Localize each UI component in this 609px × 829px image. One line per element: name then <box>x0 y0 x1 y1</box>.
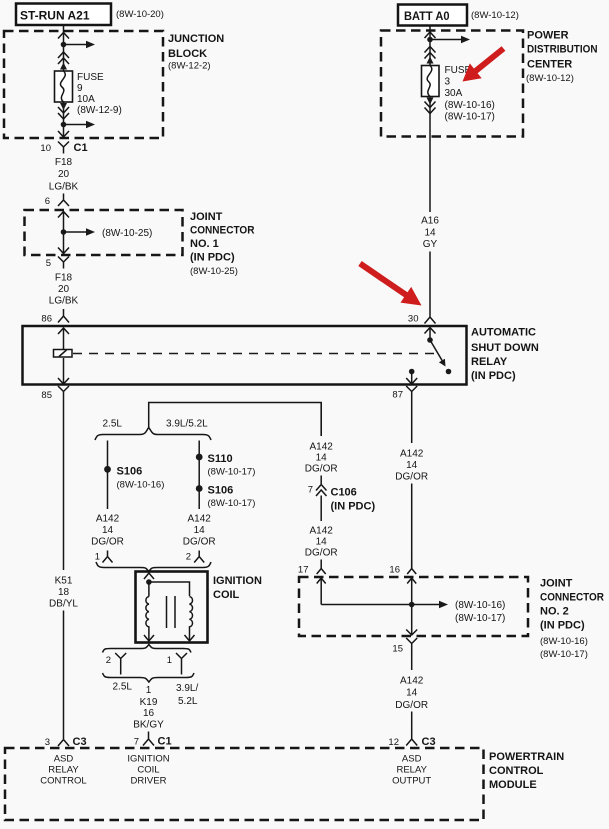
svg-text:15: 15 <box>392 644 403 655</box>
joint connector no.2 label <box>540 578 604 661</box>
node junction dot with branch arrow lower <box>61 121 95 129</box>
joint connector no.1 label <box>190 211 255 277</box>
power distribution center label <box>526 30 598 85</box>
connector pin 30 symbol <box>425 310 436 324</box>
svg-text:5.2L: 5.2L <box>178 696 198 707</box>
svg-text:RELAY: RELAY <box>471 356 508 368</box>
connector pin 16 into joint connector no.2 <box>389 560 416 576</box>
svg-text:(8W-10-17): (8W-10-17) <box>445 112 495 123</box>
svg-text:A142: A142 <box>400 449 424 460</box>
relay switch output contact <box>406 369 417 384</box>
wire below fuse 3 with down arrow <box>427 97 434 115</box>
svg-text:BK/GY: BK/GY <box>133 720 164 731</box>
junction block dashed box <box>4 31 163 138</box>
svg-text:BLOCK: BLOCK <box>168 48 207 60</box>
junction block label <box>168 33 224 72</box>
right coil branch wire <box>198 441 200 510</box>
svg-text:DRIVER: DRIVER <box>131 776 167 787</box>
ignition coil label <box>213 575 262 601</box>
pin 3 function label <box>40 754 86 787</box>
svg-text:DG/OR: DG/OR <box>395 700 428 711</box>
svg-text:K19: K19 <box>140 697 158 708</box>
wire ST-RUN to junction block <box>63 25 65 44</box>
svg-text:(IN PDC): (IN PDC) <box>190 252 235 264</box>
svg-text:10A: 10A <box>77 94 95 105</box>
svg-text:85: 85 <box>41 390 52 401</box>
svg-text:(8W-10-16): (8W-10-16) <box>455 600 505 611</box>
solid up arrow above fuse 9 <box>60 63 67 70</box>
svg-text:NO. 1: NO. 1 <box>190 238 219 250</box>
wire to fuse <box>63 45 65 72</box>
svg-text:POWERTRAIN: POWERTRAIN <box>489 751 564 763</box>
automatic shut down relay box <box>23 326 467 385</box>
svg-text:LG/BK: LG/BK <box>49 296 79 307</box>
wire label A142 right branch <box>183 514 216 548</box>
double chevron connector above fuse 3 <box>425 47 436 59</box>
svg-text:DB/YL: DB/YL <box>49 599 78 610</box>
connector pin 1 left branch <box>95 551 113 563</box>
BATT A0 feed box <box>398 5 467 26</box>
svg-text:ST-RUN A21: ST-RUN A21 <box>20 11 90 23</box>
red annotation arrow at pin 30 <box>358 261 421 306</box>
solid up arrow above fuse 3 <box>427 57 434 64</box>
svg-text:3.9L/5.2L: 3.9L/5.2L <box>166 419 208 430</box>
relay coil exit wire with chevron <box>58 358 69 384</box>
svg-text:DG/OR: DG/OR <box>183 537 216 548</box>
svg-text:C3: C3 <box>73 736 87 748</box>
engine labels below coil <box>113 682 199 708</box>
svg-text:CONNECTOR: CONNECTOR <box>540 592 604 604</box>
svg-text:17: 17 <box>298 565 309 576</box>
svg-text:30A: 30A <box>445 88 463 99</box>
svg-text:9: 9 <box>77 83 83 94</box>
svg-text:JOINT: JOINT <box>190 211 223 223</box>
node dot with branch arrow in PDC <box>427 36 470 44</box>
connector C3 pin 3 <box>45 732 87 748</box>
relay coil <box>54 350 73 358</box>
svg-text:A142: A142 <box>310 442 334 453</box>
svg-text:S110: S110 <box>208 453 233 465</box>
svg-text:87: 87 <box>392 390 403 401</box>
svg-text:30: 30 <box>408 314 419 325</box>
svg-text:14: 14 <box>316 537 328 548</box>
svg-text:COIL: COIL <box>137 765 159 776</box>
svg-text:(8W-10-25): (8W-10-25) <box>102 228 152 239</box>
connector pin 15 <box>392 638 417 655</box>
wire pin 87 down to A142 label <box>411 399 413 443</box>
svg-text:S106: S106 <box>208 485 234 497</box>
connector pin 86 into relay <box>41 309 69 325</box>
svg-text:10: 10 <box>40 143 51 154</box>
splice S106 left <box>104 466 164 491</box>
svg-text:JUNCTION: JUNCTION <box>168 33 224 45</box>
wire PDC exit down to A16 label <box>429 114 431 212</box>
pin 7 function label <box>127 754 169 787</box>
connector C106 pin 7 <box>308 476 376 513</box>
svg-text:(8W-10-16): (8W-10-16) <box>117 480 165 491</box>
wire BATT to PDC <box>429 26 431 40</box>
wire K51 lower segment <box>63 611 65 733</box>
svg-text:C1: C1 <box>74 142 88 154</box>
svg-text:(8W-10-17): (8W-10-17) <box>455 613 505 624</box>
connector pin 5 <box>46 257 69 270</box>
connector pin 87 <box>392 386 417 401</box>
svg-text:6: 6 <box>45 196 50 207</box>
wire to pin 12 <box>411 712 413 732</box>
wire label A142 14 DG/OR bottom <box>395 676 428 712</box>
svg-text:5: 5 <box>46 258 51 269</box>
svg-text:1: 1 <box>146 685 152 696</box>
svg-text:(8W-10-20): (8W-10-20) <box>116 9 164 20</box>
merge brace below pins <box>103 673 195 682</box>
connector pin 6 into joint connector no.1 <box>45 194 69 208</box>
svg-text:(IN PDC): (IN PDC) <box>540 620 585 632</box>
wire A16 lower segment to pin 30 <box>429 252 431 311</box>
connector pin 85 <box>41 386 69 401</box>
svg-text:IGNITION: IGNITION <box>213 575 262 587</box>
powertrain control module dashed box <box>5 748 484 820</box>
coil primary junction dot <box>146 579 189 596</box>
svg-text:20: 20 <box>58 169 70 180</box>
wire exit junction block with down chevron <box>58 125 69 138</box>
svg-text:14: 14 <box>406 460 418 471</box>
svg-text:(8W-10-12): (8W-10-12) <box>471 10 519 21</box>
svg-text:DG/OR: DG/OR <box>305 464 338 475</box>
connector C1 pin 7 <box>134 732 172 748</box>
svg-text:7: 7 <box>308 485 313 496</box>
branch header line to coils and C106 <box>149 403 322 437</box>
fuse 3 value label <box>445 65 495 123</box>
relay coil wire entry chevron <box>58 328 69 349</box>
svg-text:(8W-10-12): (8W-10-12) <box>526 73 574 84</box>
left coil branch wire <box>107 441 109 510</box>
reference (8W-10-12) top <box>471 10 519 21</box>
svg-text:2.5L: 2.5L <box>103 419 123 430</box>
svg-text:CONNECTOR: CONNECTOR <box>190 225 255 237</box>
svg-text:1: 1 <box>95 552 100 563</box>
transformer core <box>167 596 176 628</box>
svg-text:14: 14 <box>406 688 418 699</box>
svg-text:POWER: POWER <box>527 30 569 42</box>
svg-text:LG/BK: LG/BK <box>49 182 79 193</box>
svg-text:CONTROL: CONTROL <box>40 776 86 787</box>
svg-text:MODULE: MODULE <box>489 779 537 791</box>
gather brace below ignition coil <box>103 645 192 653</box>
svg-text:7: 7 <box>134 737 139 748</box>
svg-text:14: 14 <box>102 525 114 536</box>
ST-RUN A21 feed box <box>16 4 111 26</box>
wire label A142 left branch <box>91 514 124 548</box>
double chevron connector below fuse <box>58 107 69 119</box>
fuse 9 (junction block) <box>55 71 73 102</box>
joint connector no.2 dashed box <box>299 577 528 636</box>
svg-text:(8W-12-2): (8W-12-2) <box>168 61 211 72</box>
splice S110 <box>196 453 256 478</box>
svg-text:C106: C106 <box>331 487 357 499</box>
svg-text:(8W-10-17): (8W-10-17) <box>208 467 256 478</box>
svg-text:(8W-10-17): (8W-10-17) <box>208 498 256 509</box>
svg-text:A142: A142 <box>310 526 334 537</box>
svg-text:FUSE: FUSE <box>77 72 104 83</box>
power distribution center dashed box <box>381 31 523 137</box>
wire to fuse 3 <box>429 40 431 66</box>
wire label A142 14 DG/OR first <box>395 449 428 483</box>
svg-text:DG/OR: DG/OR <box>91 537 124 548</box>
wire label A16 14 GY <box>421 216 439 251</box>
wire label K51 18 DB/YL <box>49 576 78 610</box>
transformer left winding <box>146 597 149 642</box>
svg-text:(IN PDC): (IN PDC) <box>471 370 516 382</box>
connector pin 2 ignition coil <box>106 653 126 675</box>
connector C1 pin 10 <box>40 142 87 155</box>
fuse 3 (PDC) <box>422 66 440 97</box>
svg-text:2: 2 <box>106 655 111 666</box>
svg-text:(IN PDC): (IN PDC) <box>331 501 376 513</box>
wire label K19 16 BK/GY <box>133 697 164 731</box>
node dot with branch arrow (8W-10-25) <box>61 228 153 239</box>
svg-text:RELAY: RELAY <box>396 765 427 776</box>
wire pin 85 down to K51 label <box>63 399 65 570</box>
svg-text:BATT A0: BATT A0 <box>404 11 450 23</box>
svg-text:16: 16 <box>389 565 400 576</box>
svg-text:CONTROL: CONTROL <box>489 765 544 777</box>
svg-text:86: 86 <box>41 314 52 325</box>
coil entry chevron <box>144 573 154 579</box>
split brace upper <box>95 428 211 441</box>
svg-text:(8W-10-16): (8W-10-16) <box>445 100 495 111</box>
svg-text:DG/OR: DG/OR <box>305 548 338 559</box>
svg-text:ASD: ASD <box>402 754 422 765</box>
pin 17 entry chevron inside box <box>317 578 326 605</box>
connector pin 30 label <box>408 314 419 325</box>
svg-text:DISTRIBUTION: DISTRIBUTION <box>527 44 598 56</box>
svg-text:RELAY: RELAY <box>48 765 79 776</box>
wire label A142 C106 lower <box>305 526 338 559</box>
svg-text:3.9L/: 3.9L/ <box>176 683 198 694</box>
svg-text:COIL: COIL <box>213 589 240 601</box>
svg-text:DG/OR: DG/OR <box>395 472 428 483</box>
svg-text:(8W-12-9): (8W-12-9) <box>77 105 122 116</box>
joint connector no.2 exit chevron <box>406 630 417 636</box>
relay switch pin 30 entry chevron <box>425 328 436 341</box>
svg-text:(8W-10-25): (8W-10-25) <box>190 266 238 277</box>
svg-text:C3: C3 <box>422 736 436 748</box>
wire below fuse with down arrow <box>60 102 67 125</box>
svg-text:C1: C1 <box>158 736 172 748</box>
svg-text:K51: K51 <box>55 576 73 587</box>
merge brace above ignition coil <box>96 562 211 572</box>
wire pin 15 to A142 label <box>411 653 413 671</box>
wire label F18 20 LG/BK second <box>49 273 79 307</box>
svg-text:18: 18 <box>58 587 70 598</box>
wire label F18 20 LG/BK <box>49 157 79 193</box>
svg-text:S106: S106 <box>117 466 143 478</box>
svg-text:A16: A16 <box>421 216 439 227</box>
transformer right winding <box>190 597 193 642</box>
relay switch blade <box>427 337 451 374</box>
svg-text:(8W-10-16): (8W-10-16) <box>540 636 588 647</box>
joint connector no.2 internal link with arrow <box>321 600 505 624</box>
svg-text:14: 14 <box>316 453 328 464</box>
connector pin 2 right branch <box>186 551 204 563</box>
relay label <box>471 327 539 383</box>
svg-text:JOINT: JOINT <box>540 578 573 590</box>
svg-text:F18: F18 <box>55 157 73 168</box>
svg-text:CENTER: CENTER <box>527 59 572 71</box>
svg-text:3: 3 <box>45 737 50 748</box>
connector pin 17 into joint connector no.2 <box>298 560 326 576</box>
C106 branch wire upper <box>320 403 322 437</box>
svg-text:AUTOMATIC: AUTOMATIC <box>471 327 536 339</box>
coil exit chevrons <box>144 635 195 641</box>
svg-text:F18: F18 <box>55 273 73 284</box>
svg-text:NO. 2: NO. 2 <box>540 606 569 618</box>
red annotation arrow at fuse 3 <box>463 46 506 81</box>
svg-text:14: 14 <box>424 228 436 239</box>
reference (8W-10-20) <box>116 9 164 20</box>
connector C3 pin 12 <box>388 732 435 749</box>
svg-text:OUTPUT: OUTPUT <box>392 776 431 787</box>
svg-text:A142: A142 <box>400 676 424 687</box>
svg-text:A142: A142 <box>188 514 212 525</box>
chevron into PDC <box>425 32 436 38</box>
splice S106 right <box>196 485 256 510</box>
joint connector no.1 dashed box <box>25 210 183 255</box>
svg-text:20: 20 <box>58 284 70 295</box>
arrow chevron into junction block <box>58 33 69 39</box>
powertrain control module label <box>489 751 564 791</box>
svg-text:GY: GY <box>423 239 438 250</box>
pin 12 function label <box>392 754 431 787</box>
svg-text:ASD: ASD <box>54 754 74 765</box>
node junction dot with branch arrow <box>61 41 95 49</box>
svg-text:3: 3 <box>445 77 451 88</box>
C106 branch wire lower <box>320 496 322 522</box>
svg-text:2: 2 <box>186 552 191 563</box>
pin 16 entry chevron inside box <box>407 578 416 635</box>
double chevron connector below fuse 3 <box>425 102 436 114</box>
svg-text:12: 12 <box>388 737 399 748</box>
engine option labels 2.5L / 3.9L 5.2L <box>103 419 209 430</box>
relay internal dashed link <box>73 353 436 355</box>
exit chevron joint connector no.1 <box>58 248 69 254</box>
wire A142 lower segment to pin 16 <box>411 484 413 569</box>
svg-text:(8W-10-17): (8W-10-17) <box>540 649 588 660</box>
svg-text:16: 16 <box>143 708 155 719</box>
svg-text:IGNITION: IGNITION <box>127 754 169 765</box>
wire inside joint connector no.1 with entry chevron <box>58 212 69 254</box>
connector pin 1 ignition coil <box>167 653 187 675</box>
svg-text:A142: A142 <box>96 514 120 525</box>
double chevron connector above fuse <box>58 52 69 64</box>
svg-text:14: 14 <box>194 525 206 536</box>
svg-text:2.5L: 2.5L <box>113 682 133 693</box>
ignition coil box <box>136 572 208 643</box>
wire label A142 C106 upper <box>305 442 338 475</box>
svg-text:SHUT DOWN: SHUT DOWN <box>471 342 539 354</box>
svg-text:1: 1 <box>167 655 172 666</box>
fuse 9 value label <box>77 72 122 116</box>
